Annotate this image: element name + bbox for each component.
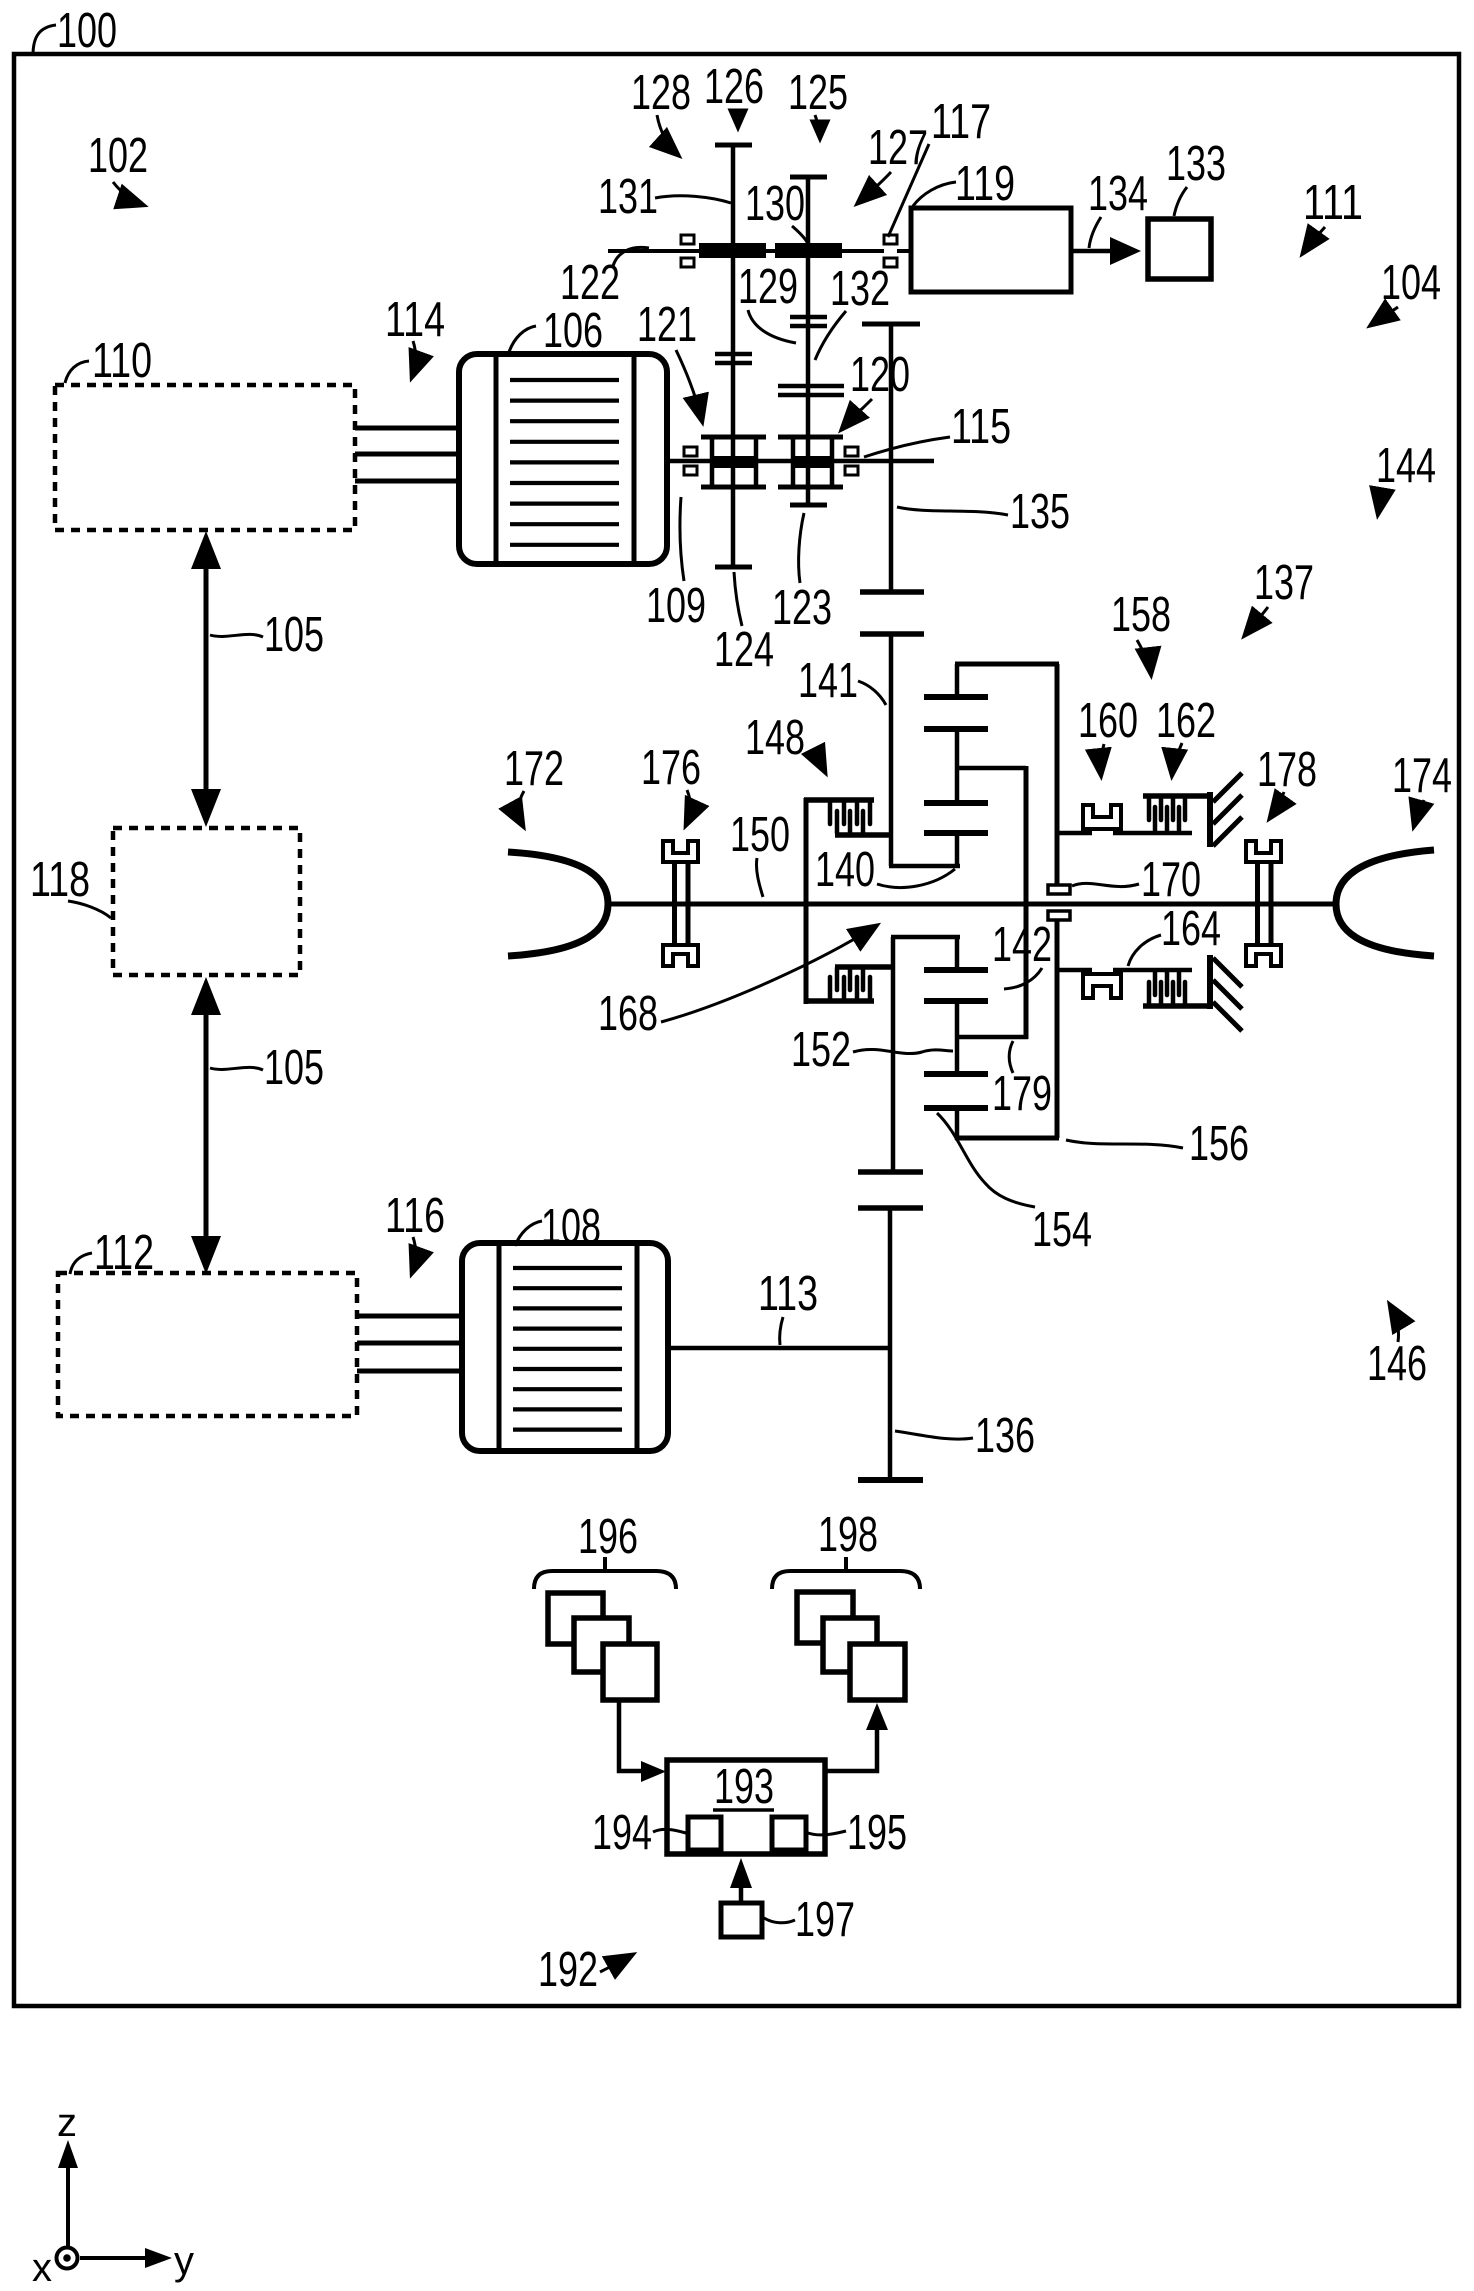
label 148 arrow [810,751,825,772]
svg-text:117: 117 [931,95,991,149]
label 102 arrow [113,182,143,205]
svg-text:120: 120 [850,348,910,402]
svg-text:130: 130 [745,177,805,231]
svg-text:x: x [32,2246,52,2290]
svg-text:104: 104 [1381,256,1441,310]
axis origin circle [57,2248,78,2269]
clutch 148 upper comb teeth down [830,803,870,824]
wire 3 (box 112 to motor 108) [357,1369,462,1374]
svg-text:137: 137 [1254,556,1314,610]
clutch 176 discs [675,864,689,943]
ring mesh pair lower planetary lower bar [924,1105,988,1111]
memory square 195 [772,1817,806,1850]
svg-text:133: 133 [1166,137,1226,191]
svg-text:141: 141 [798,654,858,708]
gear block 120 on shaft 109 [778,437,843,487]
svg-text:110: 110 [92,334,152,388]
dog clutch 160 [1083,805,1121,829]
gear hub 127 on shaft 122 [775,243,842,258]
shaft 135 vertical upper [889,322,894,592]
planet mesh bar upper planetary [924,800,988,806]
label 164 hook [1128,935,1161,966]
svg-text:164: 164 [1161,902,1221,956]
label 133 leader [1174,187,1187,216]
brake 164 bottom plate [1143,1003,1213,1009]
ground hatching upper brake [1213,773,1242,846]
svg-text:111: 111 [1303,176,1363,230]
svg-text:193: 193 [714,1760,774,1814]
svg-text:119: 119 [955,157,1015,211]
sensor square 196-1 [548,1593,603,1644]
memory square 194 [688,1817,721,1850]
brake 162 teeth down [1149,799,1185,820]
clutch 176 bottom jaw [663,945,698,966]
label 117 leader [888,144,929,237]
label 168 arrow [661,926,876,1022]
tick 125 top of line 130 [790,175,827,180]
carrier tap upper [957,766,1026,771]
label 170 leader [1072,883,1139,886]
label 132 leader [815,311,846,360]
gear mesh pair 132 on line 130 [778,386,844,395]
svg-text:176: 176 [641,741,701,795]
label 141 hook [858,681,886,705]
svg-text:178: 178 [1257,743,1317,797]
ring mesh bar lower [924,726,988,732]
svg-text:156: 156 [1189,1117,1249,1171]
svg-text:142: 142 [992,918,1052,972]
sensor square 196-2 [574,1618,629,1672]
label 158 arrow [1137,640,1151,674]
carrier arm right vertical [1024,766,1029,1039]
svg-text:115: 115 [951,400,1011,454]
label 121 arrow [676,350,702,421]
svg-text:168: 168 [598,987,658,1041]
controller box 118 (dashed) [113,828,300,975]
svg-text:148: 148 [745,711,805,765]
label 193 underline [713,1808,774,1812]
motor 106 right end bar [632,355,637,563]
svg-text:152: 152 [791,1023,851,1077]
svg-text:122: 122 [560,256,620,310]
label 134 leader [1089,217,1101,248]
svg-text:134: 134 [1088,167,1148,221]
label 105 lower leader [210,1067,263,1070]
carrier bracket top arm [804,797,874,803]
label 150 leader [756,858,763,897]
carrier bracket left vertical [804,798,809,1004]
motor 108 left end bar [497,1244,502,1450]
label 100 hook [33,25,56,55]
carrier bracket bottom arm [804,998,874,1004]
svg-text:131: 131 [598,170,658,224]
ring gear right vertical upper [1055,664,1060,884]
bearing left of shaft 122 [681,235,694,267]
label 119 hook [913,182,956,206]
main axle shaft 150/170 [606,902,1336,907]
clutch 148 lower comb teeth down [837,968,863,990]
svg-text:129: 129 [738,260,798,314]
sun gear 140 horizontal [889,864,960,869]
shaft 113 from motor 108 [668,1346,890,1351]
svg-text:100: 100 [57,4,117,58]
tick bottom of line 124 [715,565,752,570]
svg-text:140: 140 [815,843,875,897]
coupling lower planetary bar 2 [858,1205,923,1211]
arrow from sensors 196 to controller 193 [619,1700,666,1782]
battery box 110 (dashed) [55,385,355,530]
wheel 174 (right half-ellipse) [1336,850,1434,956]
svg-text:196: 196 [578,1510,638,1564]
wire 3 (box 110 to motor 106) [355,479,459,484]
label 194 leader [653,1829,686,1833]
ring gear 158 top bar [955,662,1059,667]
gear mesh pair on line 131 [715,354,752,363]
planet gear line lower [955,1001,960,1074]
svg-text:z: z [57,2101,77,2145]
wire 2 (box 112 to motor 108) [357,1341,462,1346]
clutch 178 top jaw [1246,841,1281,862]
label 127 arrow [858,172,891,203]
label 105 upper leader [210,634,263,637]
label 123 leader [799,513,804,583]
clutch 178 discs [1258,864,1272,943]
svg-text:132: 132 [830,262,890,316]
label 197 leader [764,1918,795,1923]
svg-text:125: 125 [788,66,848,120]
label 112 hook [70,1253,92,1274]
actuator square 198-3 [850,1644,905,1700]
clutch 148 lower comb teeth up [830,977,870,998]
svg-text:128: 128 [631,66,691,120]
ground post lower brake [1207,955,1213,1009]
svg-text:113: 113 [758,1267,818,1321]
bearing 170 lower [1048,911,1070,920]
svg-text:194: 194 [592,1806,652,1860]
sun stub lower planetary [955,937,960,970]
label 122 hook [613,247,649,266]
svg-text:195: 195 [847,1806,907,1860]
svg-text:154: 154 [1032,1203,1092,1257]
svg-text:126: 126 [704,60,764,114]
label 135 leader [897,507,1008,515]
double arrow 105 lower (118 to 112) [191,977,221,1274]
motor 106 windings [510,380,619,545]
label 129 leader [748,310,796,343]
svg-text:144: 144 [1376,439,1436,493]
input line to box 119 [897,249,911,253]
shaft 122 [608,249,884,253]
label 195 leader [808,1831,846,1835]
ground hatching lower brake [1213,958,1242,1031]
label 115 leader [864,437,950,457]
label 111 arrow [1303,227,1325,253]
label 106 hook [509,326,536,352]
svg-text:105: 105 [264,608,324,662]
ring gear 156 bottom bar [955,1136,1059,1141]
label 152 leader [853,1049,953,1053]
ring gear right vertical lower [1055,920,1060,1138]
label 192 arrow [600,1955,632,1972]
device box 133 [1148,219,1211,279]
bracket 198 [772,1557,920,1589]
label 136 leader [895,1431,973,1439]
svg-text:158: 158 [1111,588,1171,642]
svg-text:121: 121 [637,298,697,352]
label 124 leader [734,572,742,626]
label 118 hook [68,901,111,918]
svg-text:170: 170 [1141,853,1201,907]
svg-text:123: 123 [772,581,832,635]
svg-text:162: 162 [1156,694,1216,748]
svg-text:136: 136 [975,1409,1035,1463]
clutch 176 top jaw [663,841,698,862]
svg-text:112: 112 [94,1226,154,1280]
sun L lower planetary [891,935,960,940]
sun shaft 141 upper vertical [889,634,894,866]
label 113 leader [780,1317,783,1345]
gear block 121 on shaft 109 [701,437,766,487]
label 162 arrow [1172,743,1182,775]
sun mesh bar upper planetary [924,830,988,836]
svg-text:105: 105 [264,1041,324,1095]
bearing 117 [884,235,897,267]
axis y arrow [80,2248,172,2268]
axis z arrow [58,2140,78,2247]
label 116 arrow [412,1237,416,1273]
controller box 193 [667,1760,825,1854]
sun shaft 152 lower vertical [891,937,896,1172]
svg-text:197: 197 [795,1893,855,1947]
shaft 136 vertical [888,1208,893,1480]
ring gear stub upper [955,664,960,697]
brake line upper right segment [1113,831,1192,836]
planet gear line upper [955,729,960,803]
wheel 172 (left half-ellipse) [508,852,608,956]
label 110 hook [65,361,89,383]
actuator square 198-2 [823,1618,877,1672]
carrier tap lower [957,1035,1028,1040]
bracket 196 [534,1557,676,1589]
svg-text:114: 114 [385,293,445,347]
svg-text:y: y [174,2239,194,2283]
label 131 leader [655,196,731,203]
input box 197 [721,1903,762,1937]
shaft 109/115 from motor 106 [667,459,934,464]
label 126 arrow [733,110,738,128]
svg-text:106: 106 [543,304,603,358]
svg-text:108: 108 [541,1200,601,1254]
label 120 arrow [842,399,872,429]
svg-text:160: 160 [1078,694,1138,748]
clutch 148 upper comb teeth up [837,811,863,833]
motor 108 housing [462,1243,668,1451]
tick bottom of shaft 136 [858,1477,923,1483]
coupling lower planetary bar 1 [858,1169,923,1175]
motor 108 right end bar [635,1244,640,1450]
label 172 arrow [519,791,524,826]
motor 108 windings [513,1268,622,1430]
brake 164 teeth down [1155,972,1179,995]
wire 1 (box 110 to motor 106) [355,426,459,431]
ring mesh bar upper [924,694,988,700]
gear hub 128 on shaft 122 [699,243,766,258]
bearing left on shaft 109 [684,447,697,475]
clutch 148 upper lower plate [835,832,893,838]
label 178 arrow [1270,792,1284,818]
label 114 arrow [412,341,416,377]
ground post upper brake [1207,792,1213,847]
svg-text:102: 102 [88,129,148,183]
gearbox 119 [911,208,1071,292]
label 146 arrow [1390,1305,1399,1342]
label 128 arrow [657,115,678,155]
battery box 112 (dashed) [58,1273,357,1416]
label 125 arrow [815,115,820,139]
brake 164 teeth up [1149,982,1185,1003]
brake 162 top plate [1143,793,1213,799]
label 104 arrow [1371,307,1398,325]
label 156 leader [1066,1140,1183,1148]
clutch 178 bottom jaw [1246,945,1281,966]
sun mesh bar lower planetary [924,967,988,973]
label 109 leader [680,497,684,581]
label 179 leader [1009,1041,1013,1073]
arrow from controller 193 to actuators 198 [825,1703,888,1771]
double arrow 105 upper (110 to 118) [191,531,221,827]
svg-text:150: 150 [730,808,790,862]
brake line upper left segment [1057,831,1092,836]
label 140 leader [877,869,955,888]
svg-text:198: 198 [818,1508,878,1562]
label 144 arrow [1378,491,1392,514]
dog clutch 164 inner [1083,974,1121,998]
motor 106 housing [459,354,667,564]
label 137 arrow [1245,607,1268,635]
bearing 115 right on shaft 109 [845,447,858,475]
planet mesh bar lower planetary [924,998,988,1004]
label 154 leader [937,1113,1035,1207]
brake line lower right segment [1113,968,1192,973]
tick 126 top of line 131 [715,143,752,148]
coupling lower bar [860,631,924,637]
svg-text:179: 179 [992,1067,1052,1121]
brake 162 teeth up [1155,807,1179,830]
svg-text:146: 146 [1367,1337,1427,1391]
sun gear 140 vertical stub [955,833,960,868]
countershaft 131/124 vertical [731,145,736,567]
sensor square 196-3 [603,1644,657,1700]
arrow from 197 to 193 [730,1858,752,1903]
tick bottom of line 123 [790,503,827,508]
svg-text:109: 109 [646,579,706,633]
svg-text:192: 192 [538,1943,598,1997]
actuator square 198-1 [797,1592,853,1643]
svg-text:135: 135 [1010,485,1070,539]
svg-text:172: 172 [504,742,564,796]
wire 2 (box 110 to motor 106) [355,452,459,457]
label 174 arrow [1414,800,1424,826]
svg-text:118: 118 [30,853,90,907]
label 130 leader [792,226,807,242]
motor 106 left end bar [494,355,499,563]
brake line lower left segment [1057,968,1092,973]
label 108 hook [515,1221,542,1246]
ring mesh pair lower planetary upper bar [924,1071,988,1077]
coupling upper bar [860,589,924,595]
countershaft 130/123 vertical [806,177,811,505]
svg-text:124: 124 [714,623,774,677]
arrow 134 from box 119 to box 133 [1071,237,1141,265]
wire 1 (box 112 to motor 108) [357,1314,462,1319]
ring stub lower [955,1108,960,1140]
label 160 arrow [1101,744,1104,775]
label 176 arrow [686,790,690,825]
bearing 170 upper [1048,885,1070,894]
clutch 148 lower upper plate [835,964,893,970]
tick top of line 135 [862,322,920,327]
label 142 hook [1004,968,1042,989]
gear mesh pair 129 on line 130 [790,317,827,326]
svg-text:174: 174 [1392,749,1452,803]
svg-text:116: 116 [385,1189,445,1243]
